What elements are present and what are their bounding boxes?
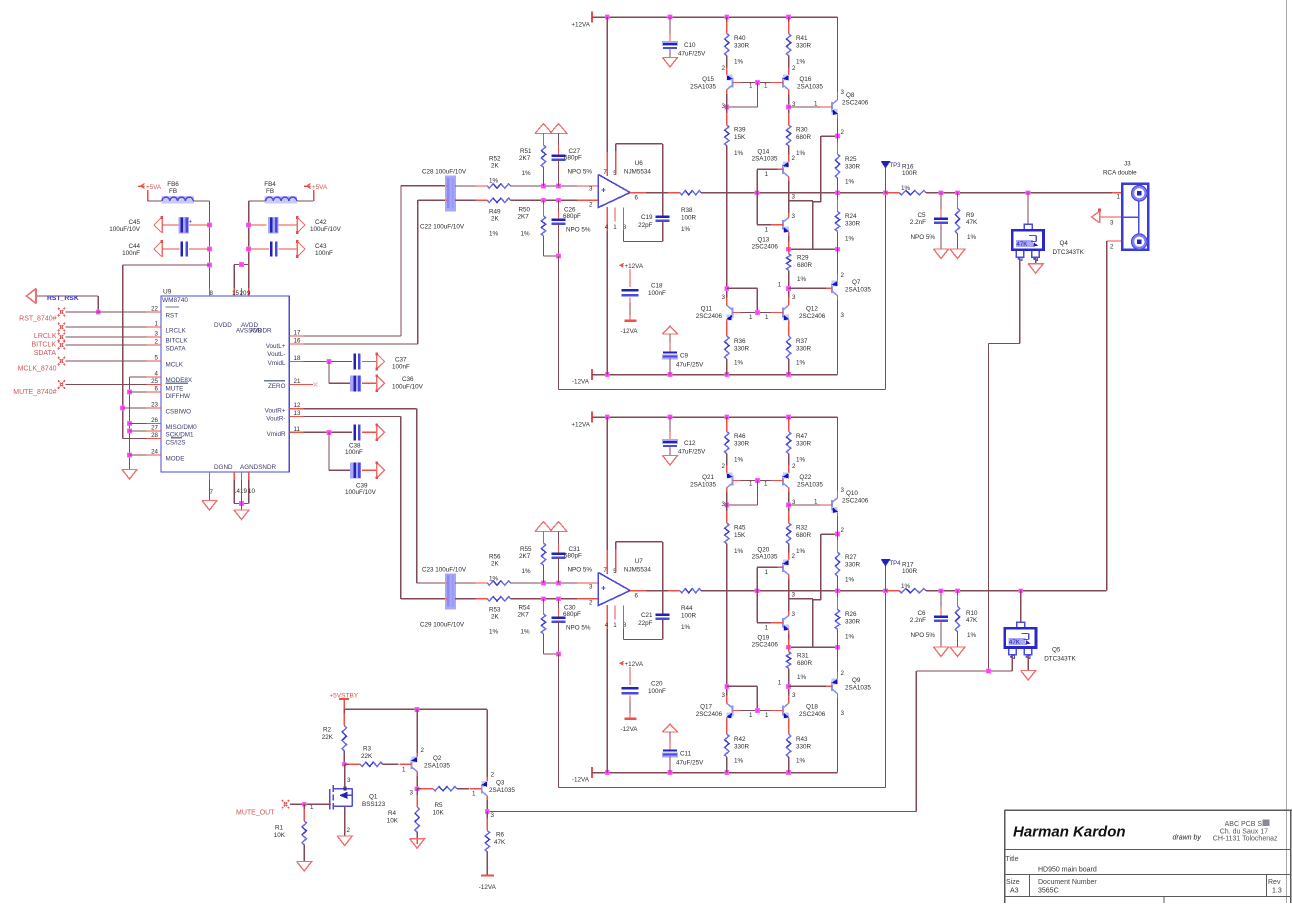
power +12VA rail — [591, 12, 593, 23]
svg-text:2K7: 2K7 — [518, 214, 530, 221]
transistor Q4 DTC343TK — [1026, 190, 1031, 195]
svg-text:R42: R42 — [734, 736, 746, 743]
svg-text:MISO/DM0: MISO/DM0 — [166, 424, 198, 431]
svg-text:C6: C6 — [917, 610, 926, 617]
capacitor C38 100nF — [304, 431, 353, 433]
transistor Q8 2SC2406 output — [837, 17, 839, 96]
svg-text:1: 1 — [764, 83, 768, 90]
svg-text:+12VA: +12VA — [625, 263, 644, 270]
svg-text:100nF: 100nF — [315, 250, 333, 257]
svg-text:3: 3 — [589, 186, 593, 193]
AVDD pins bracket — [233, 265, 235, 289]
svg-text:24: 24 — [151, 449, 158, 456]
svg-text:-12VA: -12VA — [572, 777, 590, 784]
svg-text:Q18: Q18 — [806, 704, 818, 711]
wire Q2 collector to rail — [416, 709, 418, 752]
svg-text:47uF/25V: 47uF/25V — [676, 760, 704, 767]
svg-text:CS/I2S: CS/I2S — [166, 440, 186, 447]
svg-text:FB4: FB4 — [264, 181, 276, 188]
svg-text:5: 5 — [155, 355, 159, 362]
resistor R9 47K — [957, 193, 959, 209]
svg-text:28: 28 — [151, 432, 158, 439]
svg-text:C20: C20 — [651, 681, 663, 688]
svg-text:CSBIWO: CSBIWO — [166, 409, 192, 416]
transistor Q10 2SC2406 output — [837, 417, 839, 494]
wire VoutL+ pin17 to C28 row — [304, 335, 402, 337]
svg-text:21: 21 — [294, 378, 301, 385]
svg-text:3: 3 — [792, 592, 796, 599]
svg-text:1%: 1% — [522, 568, 532, 575]
wire R39 to Q11 — [726, 544, 728, 699]
svg-text:3: 3 — [155, 331, 159, 338]
svg-text:-12VA: -12VA — [479, 884, 497, 891]
svg-text:680R: 680R — [797, 262, 813, 269]
svg-text:+5VA: +5VA — [312, 184, 328, 191]
svg-text:TP4: TP4 — [890, 561, 902, 567]
svg-text:R44: R44 — [681, 605, 693, 612]
svg-text:WM8740: WM8740 — [162, 297, 188, 304]
transistor Q12 2SC2406 — [782, 308, 784, 318]
svg-text:1: 1 — [310, 804, 314, 811]
svg-text:1: 1 — [765, 625, 769, 632]
grounded config pins wire — [130, 376, 162, 378]
svg-text:12: 12 — [294, 402, 301, 409]
svg-text:100nF: 100nF — [345, 449, 363, 456]
capacitor C11 47uF/25V — [663, 724, 678, 732]
svg-text:1: 1 — [814, 101, 818, 108]
svg-text:26: 26 — [151, 417, 158, 424]
svg-text:47K: 47K — [966, 617, 978, 624]
svg-text:47K: 47K — [1016, 241, 1028, 248]
svg-text:6: 6 — [635, 593, 639, 600]
power -12VA flag small — [629, 298, 631, 304]
capacitor C42 100uF/10V — [249, 224, 267, 226]
svg-text:DTC343TK: DTC343TK — [1044, 656, 1076, 663]
svg-text:NPO 5%: NPO 5% — [911, 632, 936, 639]
svg-text:1: 1 — [778, 282, 782, 289]
svg-text:Q13: Q13 — [757, 237, 769, 244]
capacitor C44 100nF — [161, 241, 163, 257]
svg-text:SDATA: SDATA — [34, 350, 57, 357]
svg-text:1: 1 — [765, 227, 769, 234]
svg-text:330R: 330R — [845, 619, 861, 626]
power +12VA flag small — [620, 264, 624, 266]
svg-text:R36: R36 — [734, 338, 746, 345]
op-amp pin1 stub — [614, 606, 616, 620]
svg-text:NPO 5%: NPO 5% — [566, 227, 591, 234]
svg-text:2: 2 — [347, 827, 351, 834]
svg-text:1%: 1% — [901, 185, 911, 192]
page border right edge — [1286, 0, 1288, 903]
svg-text:22K: 22K — [322, 734, 334, 741]
capacitor C45 100uF/10V — [161, 217, 163, 233]
U9 right pin stubs — [289, 335, 303, 337]
svg-text:Q11: Q11 — [701, 306, 713, 313]
svg-text:47uF/25V: 47uF/25V — [676, 362, 704, 369]
wire to +input — [511, 185, 599, 187]
transistor Q15 2SA1035 — [726, 56, 728, 71]
svg-text:330R: 330R — [845, 164, 861, 171]
net flag RST top-left — [27, 289, 37, 304]
svg-text:C5: C5 — [917, 212, 926, 219]
svg-text:3: 3 — [491, 812, 495, 819]
capacitor C22 100uF/10V — [445, 199, 448, 201]
wire BITCLK to pin3 — [66, 336, 147, 338]
svg-text:2: 2 — [1110, 244, 1114, 251]
resistor R50 2K7 — [543, 200, 545, 216]
svg-text:1%: 1% — [796, 457, 806, 464]
svg-text:1: 1 — [765, 712, 769, 719]
svg-text:C9: C9 — [680, 353, 689, 360]
svg-text:2K7: 2K7 — [519, 155, 531, 162]
wire to output connector — [926, 192, 1112, 194]
svg-text:1%: 1% — [681, 226, 691, 233]
wire op-amp output to driver bases — [756, 169, 758, 192]
svg-text:13: 13 — [294, 410, 301, 417]
resistor R3 22K — [344, 763, 360, 765]
wire output node — [701, 590, 886, 592]
svg-text:23: 23 — [151, 402, 158, 409]
svg-text:Q10: Q10 — [846, 490, 858, 497]
svg-text:330R: 330R — [734, 744, 750, 751]
svg-text:2SA1035: 2SA1035 — [690, 84, 716, 91]
svg-text:VmidL: VmidL — [268, 360, 286, 367]
capacitor C18 100nF — [622, 289, 639, 291]
svg-text:R5: R5 — [435, 802, 444, 809]
resistor R6 47K — [486, 812, 488, 831]
svg-text:47K: 47K — [966, 219, 978, 226]
svg-text:680R: 680R — [796, 532, 812, 539]
wire to -input — [511, 199, 599, 201]
svg-text:20: 20 — [240, 290, 247, 297]
svg-text:R43: R43 — [796, 736, 808, 743]
svg-text:R54: R54 — [519, 605, 531, 612]
svg-text:+5VA: +5VA — [146, 184, 162, 191]
svg-text:NPO 5%: NPO 5% — [566, 625, 591, 632]
svg-text:R25: R25 — [845, 156, 857, 163]
svg-text:2SC2406: 2SC2406 — [842, 100, 869, 107]
svg-text:2: 2 — [841, 129, 845, 136]
wire Q8 emitter to R25 — [837, 119, 839, 155]
svg-text:2K: 2K — [491, 561, 500, 568]
svg-text:1%: 1% — [734, 548, 744, 555]
svg-text:2SA1035: 2SA1035 — [424, 763, 450, 770]
svg-text:R3: R3 — [363, 746, 372, 753]
svg-text:2: 2 — [722, 65, 726, 72]
svg-text:ABC PCB S: ABC PCB S — [1225, 821, 1263, 828]
svg-text:100R: 100R — [681, 215, 697, 222]
svg-text:R10: R10 — [966, 610, 978, 617]
svg-text:Ch. du Saux 17: Ch. du Saux 17 — [1220, 829, 1268, 836]
power symbol +5VA right — [304, 185, 311, 187]
svg-text:3565C: 3565C — [1038, 888, 1059, 895]
svg-text:R49: R49 — [489, 209, 501, 216]
svg-text:680pF: 680pF — [563, 611, 581, 618]
capacitor C5 2.2nF — [940, 193, 942, 217]
svg-text:3: 3 — [841, 710, 845, 717]
svg-text:9: 9 — [247, 290, 251, 297]
svg-text:11: 11 — [294, 426, 301, 433]
svg-text:2SC2406: 2SC2406 — [752, 244, 779, 251]
svg-text:FB: FB — [169, 188, 177, 195]
svg-text:1: 1 — [155, 321, 159, 328]
svg-text:680pF: 680pF — [563, 213, 581, 220]
svg-text:C18: C18 — [651, 283, 663, 290]
svg-text:100nF: 100nF — [648, 688, 666, 695]
svg-text:DGND: DGND — [214, 464, 233, 471]
IC U9 WM8740 body — [161, 296, 289, 472]
svg-text:DIFFHW: DIFFHW — [166, 393, 191, 400]
svg-text:R39: R39 — [734, 127, 746, 134]
svg-text:Q19: Q19 — [757, 635, 769, 642]
svg-text:3: 3 — [792, 294, 796, 301]
power +12VA rail — [591, 412, 593, 423]
power -12VA mute — [481, 875, 494, 877]
wire Q7 emitter to rail — [837, 698, 839, 773]
svg-text:TP3: TP3 — [890, 163, 902, 169]
U9 bottom pin stubs — [209, 472, 211, 480]
resistor R32 680R — [788, 511, 790, 523]
svg-text:1%: 1% — [521, 231, 531, 238]
svg-text:MUTE_OUT: MUTE_OUT — [236, 810, 275, 817]
wire Q3 collector to rail — [486, 709, 488, 777]
svg-text:8: 8 — [210, 290, 214, 297]
resistor R41 330R — [788, 17, 790, 34]
wire Q1 drain — [344, 764, 346, 788]
transistor Q20 2SA1035 driver — [788, 544, 790, 556]
svg-text:330R: 330R — [845, 562, 861, 569]
svg-text:R55: R55 — [520, 546, 532, 553]
svg-text:R1: R1 — [275, 825, 284, 832]
transistor Q16 2SA1035 — [788, 56, 790, 71]
wire DVDD to pins 23/28 — [123, 264, 210, 266]
svg-text:R9: R9 — [966, 212, 975, 219]
svg-text:16: 16 — [294, 338, 301, 345]
svg-text:27: 27 — [151, 425, 158, 432]
svg-text:2SC2406: 2SC2406 — [842, 498, 869, 505]
op-amp pin5 comp stub — [615, 144, 617, 168]
transistor Q21 2SA1035 — [726, 454, 728, 469]
svg-text:3: 3 — [589, 584, 593, 591]
svg-text:1: 1 — [765, 569, 769, 576]
wire Q7 base — [789, 287, 826, 289]
transistor Q7 2SA1035 output — [837, 249, 839, 277]
wire MUTE to pin25 — [66, 384, 147, 386]
wire op-amp output to driver bases — [756, 567, 758, 590]
svg-text:Q15: Q15 — [702, 76, 714, 83]
svg-text:Q7: Q7 — [852, 279, 861, 286]
wire MCLK to pin5 — [66, 360, 147, 362]
capacitor C30 680pF — [558, 599, 560, 618]
svg-text:R2: R2 — [323, 727, 332, 734]
svg-text:1%: 1% — [796, 548, 806, 555]
svg-text:2K: 2K — [491, 614, 500, 621]
resistor R10 47K — [957, 591, 959, 607]
resistor R30 680R — [788, 113, 790, 125]
svg-text:1: 1 — [1117, 194, 1121, 201]
capacitor C29 100uF/10V — [445, 598, 448, 600]
ground Q4 — [1035, 258, 1037, 264]
resistor R37 330R — [788, 324, 790, 336]
svg-text:3: 3 — [792, 194, 796, 201]
svg-text:RST: RST — [166, 313, 179, 320]
svg-text:Q8: Q8 — [846, 92, 855, 99]
power -12VA rail — [591, 369, 593, 380]
port MUTE_8740# — [58, 380, 65, 388]
svg-text:CH-1131 Tolochenaz: CH-1131 Tolochenaz — [1213, 836, 1278, 843]
wire op-amp supply — [606, 17, 608, 176]
svg-text:2SC2406: 2SC2406 — [696, 711, 723, 718]
svg-text:22K: 22K — [361, 753, 373, 760]
svg-text:MCLK_8740: MCLK_8740 — [18, 366, 57, 373]
svg-text:C10: C10 — [684, 42, 696, 49]
svg-text:680pF: 680pF — [564, 553, 582, 560]
svg-text:3: 3 — [722, 294, 726, 301]
svg-text:Size: Size — [1006, 879, 1020, 886]
resistor R39 15K — [726, 94, 728, 125]
net arrow J3 pin3 — [1099, 211, 1101, 223]
capacitor C27 680pF — [558, 134, 560, 156]
svg-text:2K7: 2K7 — [518, 612, 530, 619]
wire to +input — [511, 582, 599, 584]
resistor R38 100R — [668, 192, 680, 194]
svg-text:3: 3 — [722, 692, 726, 699]
op-amp pin5 comp stub — [615, 542, 617, 566]
power arrows — [535, 124, 552, 134]
net flag MUTE_OUT — [282, 800, 289, 808]
wire op-amp supply — [606, 417, 608, 574]
resistor R36 330R — [726, 324, 728, 336]
svg-text:C21: C21 — [641, 612, 653, 619]
svg-text:10K: 10K — [387, 818, 399, 825]
svg-text:Q14: Q14 — [757, 149, 769, 156]
svg-text:DVDD: DVDD — [214, 322, 232, 329]
svg-text:VoutR+: VoutR+ — [265, 408, 286, 415]
svg-text:7: 7 — [603, 567, 607, 574]
resistor R16 100R — [886, 192, 900, 194]
port LRCLK — [58, 323, 65, 331]
svg-text:AVDDR: AVDDR — [250, 328, 272, 335]
transistor Q18 2SC2406 — [782, 706, 784, 716]
port BITCLK — [58, 333, 65, 341]
svg-text:FB: FB — [266, 188, 274, 195]
svg-text:R26: R26 — [845, 611, 857, 618]
svg-text:VoutL+: VoutL+ — [266, 343, 286, 350]
svg-text:R47: R47 — [796, 433, 808, 440]
resistor R29 680R — [788, 236, 790, 254]
transistor Q2 2SA1035 — [411, 760, 413, 770]
svg-text:1%: 1% — [796, 360, 806, 367]
svg-text:1: 1 — [814, 499, 818, 506]
svg-text:10K: 10K — [274, 832, 286, 839]
svg-text:1%: 1% — [796, 59, 806, 66]
svg-text:2: 2 — [589, 600, 593, 607]
svg-text:1: 1 — [472, 791, 476, 798]
svg-text:1: 1 — [778, 680, 782, 687]
svg-text:100nF: 100nF — [122, 250, 140, 257]
svg-text:680R: 680R — [797, 660, 813, 667]
svg-text:1%: 1% — [681, 624, 691, 631]
svg-text:C19: C19 — [641, 214, 653, 221]
svg-text:R53: R53 — [489, 607, 501, 614]
wire to -input — [511, 598, 599, 600]
wire SDATA to pin2 — [66, 344, 147, 346]
power -12VA rail — [591, 767, 593, 778]
svg-text:1: 1 — [749, 481, 753, 488]
svg-text:1%: 1% — [797, 276, 807, 283]
svg-text:2SC2406: 2SC2406 — [696, 313, 723, 320]
wire VoutR- pin13 to C29 row — [304, 416, 401, 418]
wire Q16 emitter to R30 and Q8 base — [788, 492, 790, 523]
svg-text:VoutR-: VoutR- — [266, 416, 285, 423]
svg-text:1%: 1% — [734, 360, 744, 367]
wire driver emitters join — [788, 181, 790, 201]
svg-text:R24: R24 — [845, 213, 857, 220]
resistor R2 22K — [343, 709, 345, 725]
transistor Q19 2SC2406 driver — [782, 618, 784, 628]
svg-text:3: 3 — [841, 312, 845, 319]
transistor Q17 2SC2406 — [731, 706, 733, 716]
svg-text:47uF/25V: 47uF/25V — [678, 449, 706, 456]
resistor R44 100R — [668, 590, 680, 592]
wire R29 to Q12 — [788, 270, 790, 301]
wire Q8 emitter link — [821, 135, 838, 137]
svg-text:2: 2 — [589, 202, 593, 209]
svg-text:RCA double: RCA double — [1103, 170, 1137, 177]
svg-text:2SA1035: 2SA1035 — [752, 554, 778, 561]
svg-text:R40: R40 — [734, 35, 746, 42]
transistor Q9 2SA1035 output — [837, 647, 839, 675]
capacitor C12 47uF/25V — [669, 417, 671, 440]
svg-text:C22 100uF/10V: C22 100uF/10V — [420, 224, 465, 231]
svg-text:VoutL-: VoutL- — [267, 351, 285, 358]
svg-text:17: 17 — [294, 330, 301, 337]
wire Q15 base tie — [740, 480, 775, 482]
svg-text:R52: R52 — [489, 156, 501, 163]
capacitor C6 2.2nF — [940, 591, 942, 615]
feedback wire — [558, 654, 560, 788]
resistor R51 2K7 — [543, 134, 545, 146]
svg-text:C28 100uF/10V: C28 100uF/10V — [422, 169, 467, 176]
svg-text:1%: 1% — [796, 758, 806, 765]
svg-text:330R: 330R — [734, 441, 750, 448]
svg-text:100uF/10V: 100uF/10V — [109, 226, 141, 233]
svg-text:R41: R41 — [796, 35, 808, 42]
svg-text:R30: R30 — [796, 127, 808, 134]
svg-text:Harman Kardon: Harman Kardon — [1013, 824, 1126, 841]
wire VoutL- pin16 to C22 row — [304, 343, 418, 345]
capacitor C28 100uF/10V — [445, 176, 456, 212]
svg-text:100R: 100R — [902, 568, 918, 575]
svg-text:BSS123: BSS123 — [362, 801, 386, 808]
svg-text:NPO 5%: NPO 5% — [568, 567, 593, 574]
svg-text:MCLK: MCLK — [166, 362, 184, 369]
svg-text:2: 2 — [792, 553, 796, 560]
svg-text:-12VA: -12VA — [620, 328, 638, 335]
svg-text:Document Number: Document Number — [1038, 879, 1097, 886]
svg-text:22pF: 22pF — [638, 620, 653, 627]
capacitor C10 47uF/25V — [669, 17, 671, 42]
op-amp U6 NJM5534 — [598, 175, 630, 208]
svg-text:1%: 1% — [734, 758, 744, 765]
svg-text:2SA1035: 2SA1035 — [690, 482, 716, 489]
capacitor C43 100nF — [249, 248, 269, 250]
svg-text:-12VA: -12VA — [620, 726, 638, 733]
svg-text:NJM5534: NJM5534 — [624, 169, 651, 176]
svg-text:drawn by: drawn by — [1173, 835, 1202, 842]
svg-text:330R: 330R — [845, 221, 861, 228]
U9 ZERO pin stub end — [304, 384, 314, 386]
